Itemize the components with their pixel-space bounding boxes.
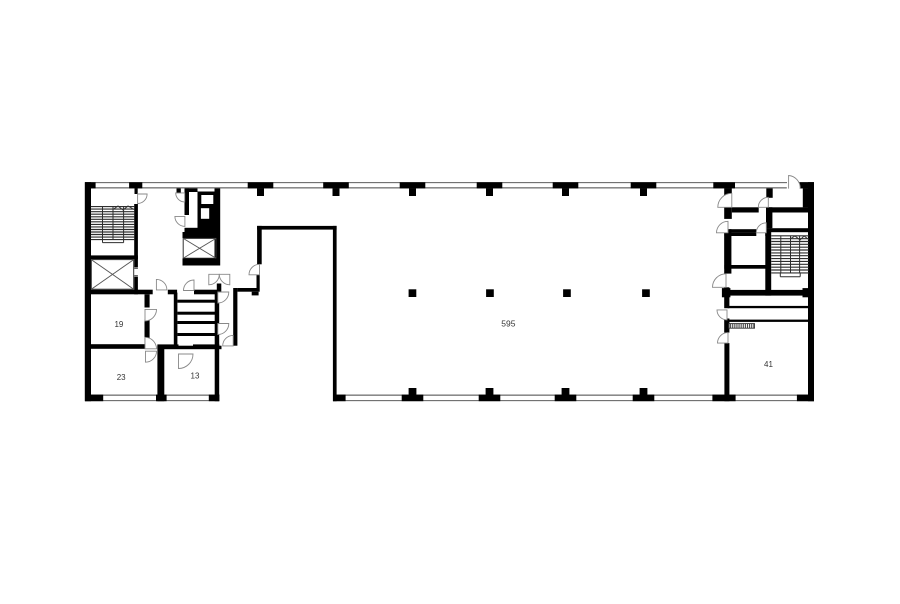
svg-text:19: 19 — [114, 320, 123, 329]
svg-text:595: 595 — [501, 319, 515, 329]
svg-text:23: 23 — [117, 373, 126, 382]
svg-text:41: 41 — [764, 360, 773, 369]
svg-text:13: 13 — [191, 371, 200, 380]
